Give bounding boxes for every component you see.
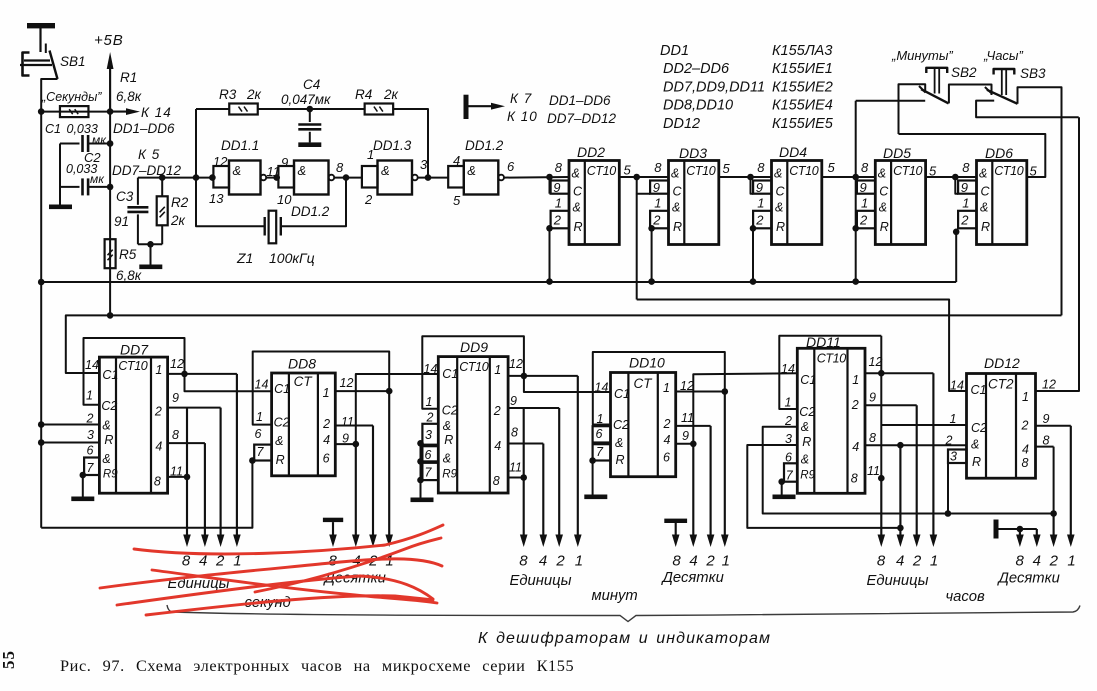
junction DD9 out1 [521, 373, 528, 380]
svg-text:2: 2 [86, 412, 94, 426]
arrow DD8 bit4 [355, 444, 357, 538]
junction DD8 out4 [353, 441, 360, 448]
junction DD11 pin2 line/DD12 [945, 510, 952, 517]
svg-text:1: 1 [852, 373, 859, 387]
wire DD12 riser2 [1053, 447, 1055, 514]
svg-text:4: 4 [323, 433, 330, 447]
svg-text:DD9: DD9 [460, 339, 488, 355]
wire C1 left [60, 143, 80, 145]
wire DD11 out4 [865, 444, 967, 446]
svg-text:8: 8 [869, 431, 876, 445]
svg-text:R: R [104, 433, 113, 447]
wire R3 left [196, 108, 229, 110]
svg-text:2: 2 [663, 417, 671, 431]
ground C3R2 [139, 265, 162, 270]
ground DD10 [584, 495, 607, 500]
svg-text:7: 7 [786, 469, 794, 483]
svg-text:R: R [981, 220, 990, 234]
resistor R2 [157, 196, 168, 225]
svg-text:&: & [467, 163, 476, 178]
counter DD5 [857, 160, 926, 245]
wire DD2 reset [549, 228, 551, 281]
svg-text:&: & [615, 436, 623, 450]
svg-text:&: & [102, 419, 110, 433]
svg-text:8: 8 [172, 428, 179, 442]
svg-text:DD2: DD2 [577, 144, 605, 160]
svg-text:2к: 2к [170, 213, 186, 228]
svg-text:R: R [776, 220, 785, 234]
svg-text:9: 9 [281, 155, 288, 170]
arrow DD8 bit8 stem [332, 522, 334, 538]
svg-text:1: 1 [1022, 390, 1029, 404]
counter DD6 [958, 160, 1027, 245]
svg-text:Рис. 97. Схема электронных: Рис. 97. Схема электронных часов на микр… [60, 656, 574, 675]
svg-text:C1: C1 [45, 122, 61, 136]
svg-text:SB2: SB2 [951, 65, 977, 80]
junction rail/C1 [107, 140, 114, 147]
svg-text:К 14: К 14 [141, 105, 172, 120]
svg-text:C2: C2 [274, 416, 290, 430]
svg-text:91: 91 [114, 214, 129, 229]
svg-text:1: 1 [1067, 553, 1075, 570]
wire DD6 pin9 tap [955, 177, 958, 194]
svg-text:К 10: К 10 [507, 109, 538, 124]
svg-text:8: 8 [672, 553, 681, 570]
junction DD6 clk [952, 174, 959, 181]
svg-text:14: 14 [781, 362, 795, 376]
wire bus2 (to DD12 C1) [637, 300, 967, 392]
wire DD8 hat [253, 352, 390, 425]
svg-text:C1: C1 [971, 383, 987, 397]
svg-text:14: 14 [424, 362, 438, 376]
wire DD12 out9 [1036, 425, 1071, 427]
svg-text:2: 2 [322, 417, 330, 431]
svg-text:2: 2 [859, 213, 868, 228]
wire gnd stem C3R2 [150, 244, 152, 264]
counter DD7 [99, 357, 167, 493]
arrow DD9 bit2 [558, 408, 560, 538]
wire SB3 output [1018, 87, 1062, 315]
svg-text:1: 1 [494, 363, 501, 377]
svg-text:C1: C1 [442, 367, 458, 381]
capacitor C1 [81, 135, 84, 152]
wire C3-R2 bottom [138, 243, 162, 245]
wire SB2 line vertical [855, 101, 857, 282]
wire DD8 out4 [335, 443, 356, 445]
svg-text:9: 9 [172, 391, 179, 405]
svg-text:1: 1 [555, 196, 562, 211]
svg-text:4: 4 [1022, 443, 1029, 457]
junction C4 [307, 106, 314, 113]
wire C4 top [309, 109, 311, 122]
svg-text:14: 14 [85, 358, 99, 372]
svg-text:12: 12 [213, 154, 228, 169]
arrow DD11 bit2 [916, 405, 918, 538]
junction DD5 rst stub [852, 225, 859, 232]
svg-text:К155ИЕ2: К155ИЕ2 [772, 79, 833, 95]
svg-text:DD8,DD10: DD8,DD10 [663, 98, 733, 114]
svg-text:&: & [233, 163, 242, 178]
arrow DD7 bit4 [204, 443, 206, 538]
junction rail/R1 [107, 108, 114, 115]
capacitor C4 [298, 123, 321, 126]
pin DD12 3 tab [948, 450, 967, 464]
switch SB1 [20, 23, 58, 86]
svg-text:К155ЛА3: К155ЛА3 [772, 43, 832, 59]
svg-text:11: 11 [681, 411, 694, 425]
svg-text:2: 2 [154, 405, 162, 419]
wire DD11 C2 link [880, 336, 882, 479]
svg-text:9: 9 [682, 429, 689, 443]
svg-text:C2: C2 [442, 404, 458, 418]
svg-text:9: 9 [869, 391, 876, 405]
wire R3-R4 [258, 108, 365, 110]
arrow DD12 bit8 [1019, 529, 1021, 538]
wire C2 left [60, 186, 80, 188]
svg-text:1: 1 [426, 395, 433, 409]
svg-text:12: 12 [509, 357, 523, 371]
arrow DD10 bit4 [692, 444, 694, 538]
svg-text:часов: часов [946, 589, 986, 605]
svg-text:2: 2 [1021, 419, 1029, 433]
svg-text:DD7,DD9,DD11: DD7,DD9,DD11 [663, 79, 765, 95]
svg-text:3: 3 [87, 428, 94, 442]
svg-text:R: R [574, 220, 583, 234]
svg-text:&: & [775, 201, 783, 215]
svg-text:1: 1 [155, 363, 162, 377]
junction DD9 pin6 gnd [417, 458, 424, 465]
arrow DD12 bit1 [1070, 426, 1072, 538]
svg-text:9: 9 [961, 180, 968, 195]
junction rail/bus3 [107, 312, 114, 319]
junction R4 node [425, 174, 432, 181]
svg-text:&: & [879, 201, 887, 215]
wire DD2 out [619, 176, 668, 178]
svg-text:C: C [776, 185, 786, 199]
svg-text:2к: 2к [246, 87, 262, 102]
svg-text:„Минуты”: „Минуты” [891, 48, 953, 63]
svg-text:CT2: CT2 [988, 377, 1014, 392]
svg-text:К155ИЕ1: К155ИЕ1 [772, 61, 833, 77]
svg-text:6: 6 [596, 427, 603, 441]
junction R3 riser [193, 174, 200, 181]
wire bus3 (DD7 C1 line) [66, 315, 1062, 373]
svg-text:9: 9 [1043, 412, 1050, 426]
svg-text:1: 1 [654, 196, 661, 211]
svg-text:1: 1 [597, 412, 604, 426]
resistor R1 [60, 106, 88, 117]
svg-text:CT10: CT10 [587, 164, 616, 178]
svg-text:2: 2 [555, 553, 565, 570]
parts list table [660, 43, 834, 132]
counter DD3 [650, 160, 719, 245]
junction C3R2 gnd [147, 241, 154, 248]
svg-text:1: 1 [256, 410, 263, 424]
svg-text:1: 1 [950, 412, 957, 426]
wire C4 bottom [309, 132, 311, 143]
wire DD6 reset [955, 232, 957, 282]
arrow DD11 bit1 [932, 373, 934, 538]
junction DD7 pin2 [38, 421, 45, 428]
junction DD4 rst stub [750, 225, 757, 232]
ground DD11 [773, 495, 796, 500]
T-bar DD12 [994, 520, 999, 539]
svg-text:&: & [801, 420, 809, 434]
svg-text:К155ИЕ4: К155ИЕ4 [772, 98, 833, 114]
junction DD11 out1 [878, 370, 885, 377]
svg-text:8: 8 [1022, 456, 1029, 470]
junction DD3 rst bus [648, 278, 655, 285]
svg-text:13: 13 [209, 191, 224, 206]
arrow DD8 bit2 [372, 426, 374, 539]
wire DD7 out4 [168, 442, 205, 444]
gate DD1.2a [294, 161, 329, 195]
pin DD9 7 tab [422, 463, 438, 480]
counter DD2 [551, 160, 620, 245]
ground DD7 [71, 497, 94, 502]
svg-text:8: 8 [493, 474, 500, 488]
svg-text:R: R [616, 453, 625, 467]
counter DD11 [797, 348, 865, 493]
wire DD7 gnd stem [82, 475, 84, 497]
svg-text:&: & [979, 167, 987, 181]
pin DD10 7 tab [593, 444, 611, 460]
svg-text:12: 12 [340, 376, 354, 390]
wire +5V rail down [109, 112, 111, 316]
svg-text:2: 2 [553, 213, 562, 228]
red stroke 4 [255, 538, 441, 592]
svg-text:55: 55 [0, 650, 18, 669]
svg-text:C2: C2 [971, 421, 987, 435]
svg-text:К155ИЕ5: К155ИЕ5 [772, 116, 834, 132]
power tap T-bar [464, 95, 469, 119]
svg-text:1: 1 [323, 386, 330, 400]
wire DD12 C2 feed [881, 424, 966, 426]
junction DD3 clk [633, 174, 640, 181]
svg-text:R: R [444, 433, 453, 447]
wire DD12 T link [999, 528, 1037, 530]
wire C1-C2 ground link [59, 144, 61, 205]
wire DD9 link to DD10 [524, 376, 611, 392]
wire DD9 gnd stem [420, 443, 422, 497]
svg-text:11: 11 [341, 415, 354, 429]
red stroke 6 [146, 596, 433, 615]
wire SB2 output [949, 85, 992, 104]
junction DD2 rst bus [546, 278, 553, 285]
wire DD12 pin3 down [947, 463, 949, 514]
wire DD8 out1 [335, 390, 389, 392]
svg-text:3: 3 [420, 157, 428, 172]
svg-text:6: 6 [87, 444, 94, 458]
wire SB2 left contact [856, 100, 926, 102]
resistor R5 [105, 239, 116, 268]
svg-text:R9: R9 [442, 469, 457, 481]
arrow DD8 bit1 [388, 391, 390, 538]
pin DD10 6 tab [593, 426, 611, 442]
svg-text:6: 6 [255, 427, 262, 441]
wire C3 top [137, 178, 139, 205]
svg-text:CT10: CT10 [459, 360, 488, 374]
svg-text:&: & [671, 167, 679, 181]
svg-text:CT: CT [294, 374, 314, 389]
svg-text:R9: R9 [103, 469, 118, 481]
svg-text:R: R [673, 220, 682, 234]
junction DD11 pin3/out4 [897, 525, 904, 532]
svg-text:8: 8 [336, 160, 344, 175]
svg-text:8: 8 [555, 160, 563, 175]
pin DD9 6 tab [422, 446, 438, 461]
junction DD10 pin7 [589, 457, 596, 464]
svg-text:4: 4 [453, 153, 460, 168]
svg-text:5: 5 [828, 160, 836, 175]
wire DD9 out1 [508, 375, 578, 377]
wire DD12 out12 to SB3 [1036, 117, 1080, 391]
svg-text:&: & [443, 419, 451, 433]
svg-text:Z1: Z1 [236, 250, 253, 266]
svg-text:4: 4 [896, 553, 904, 570]
svg-text:+5В: +5В [94, 32, 124, 49]
junction DD10 out4 [690, 441, 697, 448]
arrow DD11 bit8 [880, 478, 882, 538]
svg-text:C: C [981, 185, 991, 199]
svg-text:8: 8 [757, 160, 765, 175]
junction DD11 out4 [897, 442, 904, 449]
svg-text:C: C [673, 185, 683, 199]
svg-text:DD10: DD10 [629, 355, 665, 371]
svg-text:14: 14 [255, 378, 269, 392]
svg-text:8: 8 [511, 426, 518, 440]
junction DD5 bus1 [852, 278, 859, 285]
arrow DD9 bit4 [542, 444, 544, 539]
capacitor C3 [127, 206, 148, 209]
svg-text:7: 7 [425, 466, 433, 480]
svg-text:1: 1 [575, 553, 583, 570]
svg-text:CT: CT [634, 376, 654, 391]
wire SB3 left contact [976, 101, 1079, 118]
svg-text:8: 8 [519, 553, 528, 570]
svg-text:1: 1 [861, 196, 868, 211]
svg-text:C: C [573, 185, 583, 199]
junction DD7 out8 [184, 474, 191, 481]
wire C3 bottom [137, 214, 139, 244]
svg-text:2: 2 [364, 192, 373, 207]
svg-text:2: 2 [493, 404, 501, 418]
junction DD9 out8 [520, 474, 527, 481]
wire DD5 out [926, 176, 977, 178]
junction rail/C2 [107, 184, 114, 191]
svg-text:SB1: SB1 [60, 54, 86, 69]
svg-text:8: 8 [962, 160, 970, 175]
svg-text:7: 7 [257, 445, 265, 459]
svg-text:6: 6 [323, 452, 330, 466]
resistor R4 [365, 104, 394, 115]
counter DD4 [753, 160, 822, 245]
svg-text:5: 5 [453, 193, 461, 208]
svg-text:Единицы: Единицы [867, 573, 929, 589]
svg-text:&: & [774, 167, 782, 181]
svg-text:мк: мк [90, 172, 105, 186]
svg-text:9: 9 [553, 180, 560, 195]
svg-text:8: 8 [182, 553, 191, 570]
svg-text:R: R [880, 220, 889, 234]
svg-text:1: 1 [757, 196, 764, 211]
svg-text:9: 9 [653, 180, 660, 195]
svg-text:R2: R2 [171, 195, 189, 210]
svg-text:&: & [381, 163, 390, 178]
svg-text:DD5: DD5 [883, 145, 911, 161]
svg-text:4: 4 [494, 439, 501, 453]
svg-text:9: 9 [860, 180, 867, 195]
wire Z1 left riser [196, 178, 265, 227]
wire DD1.3 out [418, 177, 449, 179]
svg-text:SB3: SB3 [1020, 66, 1046, 81]
svg-text:C1: C1 [102, 368, 118, 382]
svg-text:C1: C1 [274, 382, 290, 396]
wire DD10 hat [593, 352, 725, 425]
svg-text:DD1.2: DD1.2 [465, 138, 504, 153]
wire DD6 out loop [899, 134, 1046, 177]
svg-text:DD7: DD7 [120, 342, 149, 358]
svg-text:4: 4 [689, 553, 697, 570]
wire DD4 pin9 tap [751, 177, 754, 194]
T-bar DD8 bit8 [323, 518, 343, 522]
svg-text:мк: мк [92, 133, 107, 147]
wire DD10 out4 [676, 443, 694, 445]
arrow DD12 bit2 [1053, 514, 1055, 539]
page number 55 [0, 650, 18, 669]
svg-text:2: 2 [960, 213, 969, 228]
wire Z1 right [281, 178, 346, 227]
svg-text:„Часы”: „Часы” [983, 48, 1023, 63]
wire DD10 gnd stem [592, 461, 594, 495]
svg-text:1: 1 [722, 553, 730, 570]
svg-text:&: & [801, 453, 809, 467]
wire SB1 vertical [40, 86, 42, 528]
svg-text:R: R [802, 435, 811, 449]
counter DD8 [272, 373, 336, 476]
svg-text:2: 2 [1049, 553, 1059, 570]
svg-text:2: 2 [912, 553, 922, 570]
counter DD9 [438, 357, 508, 493]
svg-text:4: 4 [852, 440, 859, 454]
svg-text:1: 1 [785, 396, 792, 410]
svg-text:8: 8 [154, 475, 161, 489]
svg-text:2: 2 [652, 213, 661, 228]
junction DD7 pin7 gnd [80, 472, 87, 479]
svg-text:11: 11 [867, 464, 880, 478]
ground C4 [298, 142, 321, 147]
wire DD9 out2 [508, 407, 559, 409]
red stroke 5 [117, 576, 433, 605]
svg-text:2: 2 [426, 411, 434, 425]
svg-text:2: 2 [945, 434, 953, 448]
junction DD5 clk [852, 174, 859, 181]
svg-text:К 5: К 5 [138, 147, 160, 162]
wire DD3 reset [651, 228, 653, 281]
gate DD1.2b [464, 161, 499, 195]
svg-text:&: & [573, 201, 581, 215]
junction DD4 clk [747, 174, 754, 181]
svg-text:6: 6 [507, 159, 515, 174]
svg-text:5: 5 [624, 163, 632, 178]
wire R2 top [161, 178, 163, 197]
svg-text:2: 2 [705, 553, 715, 570]
red stroke 3 [152, 570, 437, 603]
junction DD11 out8 [878, 475, 885, 482]
svg-text:DD6: DD6 [985, 145, 1013, 161]
wire DD4 out [822, 176, 876, 178]
svg-text:DD1.2: DD1.2 [291, 204, 330, 219]
